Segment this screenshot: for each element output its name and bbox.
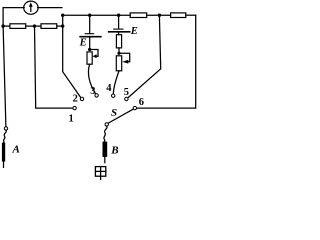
wire right rail (137, 15, 196, 108)
wire below A (3, 162, 5, 168)
battery E right (109, 29, 130, 32)
node bus1 battery E left (88, 14, 91, 17)
contact 2 circle (80, 97, 83, 100)
wire galvanometer left stub (3, 7, 24, 9)
wire battery to rheostat left (89, 38, 91, 50)
contact 5 circle (125, 97, 128, 100)
node bus2 right (61, 24, 64, 27)
wire branch to contact 1 (35, 26, 73, 108)
svg-text:1: 1 (69, 113, 74, 124)
switch S blade (108, 109, 133, 123)
caption glyph jia (95, 167, 105, 180)
svg-text:2: 2 (73, 93, 78, 104)
svg-text:5: 5 (124, 87, 129, 98)
wire bus2 segment c (57, 25, 63, 27)
contact 1 circle (73, 106, 76, 109)
wire rheostat right to contact 4 (113, 71, 119, 94)
wire battery E right drop (118, 15, 120, 29)
electrode bar A (2, 143, 5, 162)
node bus1 left (61, 14, 64, 17)
wire left rail down to terminal A (3, 26, 6, 127)
wire squiggle to B (104, 126, 107, 142)
wire branch to contact 2 (63, 15, 81, 97)
wire R6 to rheostat right (118, 48, 120, 53)
electrode bar B (103, 142, 108, 157)
resistor R1 (10, 24, 26, 29)
wire left rail top (2, 8, 4, 27)
resistor R4 (171, 13, 186, 18)
wire below B (104, 157, 106, 163)
wire bus2 segment a (3, 25, 10, 27)
node rheostat right wiper (117, 52, 120, 55)
svg-text:6: 6 (139, 97, 144, 108)
wire rheostat left to contact 3 (88, 64, 95, 94)
svg-text:S: S (111, 107, 117, 119)
contact 4 circle (112, 94, 115, 97)
switch S pivot circle (105, 123, 108, 126)
wire bus2 segment b (26, 25, 41, 27)
node bus2 mid (33, 24, 36, 27)
svg-text:E: E (130, 26, 138, 37)
svg-text:3: 3 (90, 86, 95, 97)
node rheostat left wiper (88, 48, 91, 51)
resistor R3 (130, 13, 147, 18)
contact 6 circle (133, 106, 136, 109)
wire galvanometer right stub (38, 7, 62, 9)
terminal circle above A (4, 127, 7, 130)
wire bus1 to right rail (186, 14, 196, 16)
contact 3 circle (95, 94, 98, 97)
rheostat R5 wiper arrow (90, 50, 98, 57)
node left rail / bus2 (1, 24, 4, 27)
svg-text:A: A (12, 144, 20, 156)
wire bus1 segment (147, 14, 171, 16)
svg-text:E: E (79, 38, 87, 49)
rheostat R7 wiper arrow (119, 53, 130, 61)
galvanometer G (24, 1, 38, 14)
wire battery E left drop (89, 15, 91, 33)
wire branch to contact 5 (128, 15, 161, 98)
resistor R2 (41, 24, 57, 29)
wire battery right to R6 (118, 33, 120, 35)
svg-text:4: 4 (106, 83, 112, 94)
battery E left (80, 34, 101, 37)
resistor R6 vertical (116, 35, 121, 48)
rheostat R7 body (116, 56, 121, 71)
wire squiggle to A (3, 130, 6, 142)
node bus1 battery E right (117, 14, 120, 17)
svg-text:B: B (110, 144, 118, 156)
rheostat R5 body (87, 52, 92, 64)
node bus1 switch branch (158, 14, 161, 17)
wire bus1 (63, 14, 131, 16)
